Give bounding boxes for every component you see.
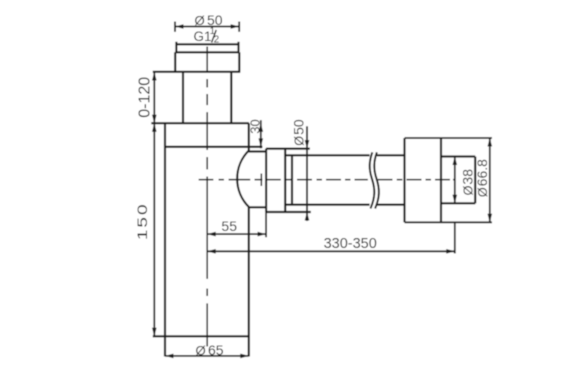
svg-text:Ø65: Ø65 (196, 342, 224, 358)
svg-text:150: 150 (135, 202, 151, 240)
svg-text:330-350: 330-350 (324, 236, 377, 252)
svg-text:30: 30 (248, 119, 263, 133)
svg-text:Ø50: Ø50 (291, 119, 307, 146)
svg-text:55: 55 (221, 218, 237, 234)
svg-text:Ø66.8: Ø66.8 (474, 159, 490, 197)
svg-text:0-120: 0-120 (137, 77, 154, 118)
